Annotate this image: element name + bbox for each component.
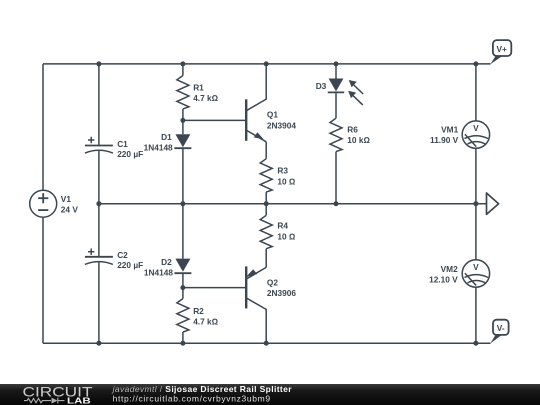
junction mid rail / C column <box>96 201 101 206</box>
resistor R4 <box>260 215 296 248</box>
junction top rail / C column <box>96 61 101 66</box>
resistor R2 <box>177 299 219 332</box>
svg-text:11.90 V: 11.90 V <box>430 135 459 145</box>
junction top rail / D column <box>180 61 185 66</box>
svg-text:4.7 kΩ: 4.7 kΩ <box>193 93 218 103</box>
svg-text:V1: V1 <box>61 194 72 204</box>
junction top rail / VM column <box>473 61 478 66</box>
svg-text:12.10 V: 12.10 V <box>429 275 458 285</box>
junction top rail / LED column <box>334 61 339 66</box>
junction bottom rail / D column <box>180 341 185 346</box>
wire R2 to bottom rail <box>182 332 184 343</box>
svg-text:D1: D1 <box>161 132 172 142</box>
wire R6 to mid rail <box>335 152 337 204</box>
capacitor C2 <box>85 249 143 270</box>
voltmeter VM2 <box>429 260 490 287</box>
svg-text:Q2: Q2 <box>267 278 278 288</box>
capacitor C1 <box>85 137 143 159</box>
node output flag <box>487 193 499 214</box>
svg-text:R3: R3 <box>277 166 288 176</box>
svg-text:10 kΩ: 10 kΩ <box>347 135 370 145</box>
resistor R3 <box>260 159 296 192</box>
wire VM1 top <box>475 64 477 121</box>
node V- tag <box>490 320 508 344</box>
svg-text:javadevmtl / Sijosae Discreet: javadevmtl / Sijosae Discreet Rail Split… <box>112 384 293 394</box>
svg-text:220 µF: 220 µF <box>117 149 143 159</box>
svg-text:D2: D2 <box>161 257 172 267</box>
svg-text:10 Ω: 10 Ω <box>277 232 296 242</box>
wire VM2 bottom <box>475 287 477 343</box>
diode D1 <box>144 132 192 153</box>
junction mid rail / LED column <box>334 201 339 206</box>
junction dot Q2 base node <box>180 285 185 290</box>
svg-text:R6: R6 <box>347 125 358 135</box>
wire mid rail output net <box>99 203 487 205</box>
svg-text:V: V <box>473 262 479 272</box>
svg-text:R1: R1 <box>193 83 204 93</box>
junction bottom rail / C column <box>96 341 101 346</box>
junction mid rail / E column <box>264 201 269 206</box>
wire R3 to mid rail <box>265 192 267 204</box>
svg-text:D3: D3 <box>316 81 327 91</box>
svg-text:220 µF: 220 µF <box>117 260 143 270</box>
wire D3 top lead <box>335 64 337 79</box>
node V+ tag <box>490 40 511 64</box>
LED D3 <box>316 79 364 105</box>
svg-text:LAB: LAB <box>67 395 91 405</box>
junction bottom rail / E column <box>264 341 269 346</box>
svg-text:VM2: VM2 <box>441 264 458 274</box>
svg-text:10 Ω: 10 Ω <box>277 177 296 187</box>
svg-text:R4: R4 <box>277 221 288 231</box>
svg-text:R2: R2 <box>193 306 204 316</box>
svg-text:C1: C1 <box>117 139 128 149</box>
wire D2 to R2 <box>182 273 184 298</box>
footer bar <box>0 384 540 405</box>
svg-text:Q1: Q1 <box>267 110 278 120</box>
transistor Q2 <box>246 249 297 344</box>
wire D1 to mid rail <box>182 148 184 204</box>
junction mid rail / D column <box>180 201 185 206</box>
wire capacitor column below C2 <box>98 262 100 343</box>
wire capacitor column above C1 <box>98 64 100 146</box>
voltmeter VM1 <box>430 121 490 148</box>
wire Q2 base <box>183 287 246 289</box>
wire capacitor column C1 to C2 <box>98 151 100 257</box>
wire top rail <box>43 63 491 65</box>
wire D3 to R6 <box>335 92 337 118</box>
voltage source V1 <box>30 190 79 217</box>
wire VM1 bottom <box>475 148 477 203</box>
svg-text:VM1: VM1 <box>441 125 458 135</box>
svg-text:V-: V- <box>497 323 505 333</box>
wire mid rail to D2 <box>182 204 184 259</box>
svg-text:C2: C2 <box>117 250 128 260</box>
svg-text:1N4148: 1N4148 <box>144 143 173 153</box>
junction dot Q1 base node <box>180 118 185 123</box>
wire R1 to D1 <box>182 109 184 134</box>
wire left column V1 to bottom rail <box>42 217 44 343</box>
transistor Q1 <box>246 64 296 159</box>
resistor R1 <box>177 76 219 109</box>
wire R1 top lead <box>182 64 184 76</box>
svg-text:24 V: 24 V <box>61 204 79 214</box>
svg-text:4.7 kΩ: 4.7 kΩ <box>193 316 218 326</box>
junction mid rail / VM column <box>473 201 478 206</box>
junction top rail / E column <box>264 61 269 66</box>
diode D2 <box>144 257 191 277</box>
wire Q1 base <box>183 119 246 121</box>
junction bottom rail / VM column <box>473 341 478 346</box>
svg-text:V+: V+ <box>497 44 508 54</box>
svg-text:1N4148: 1N4148 <box>144 267 173 277</box>
svg-text:2N3904: 2N3904 <box>267 121 296 131</box>
svg-text:2N3906: 2N3906 <box>267 288 296 298</box>
CircuitLab logo schematic squiggle <box>24 398 65 404</box>
svg-text:V: V <box>473 123 479 133</box>
wire VM2 top <box>475 204 477 260</box>
wire left column V1 to top rail <box>42 64 44 190</box>
svg-text:http://circuitlab.com/cvrbyvnz: http://circuitlab.com/cvrbyvnz3ubm9 <box>113 393 271 403</box>
wire mid rail to R4 <box>265 204 267 216</box>
resistor R6 <box>330 118 370 151</box>
wire bottom rail <box>43 342 491 344</box>
